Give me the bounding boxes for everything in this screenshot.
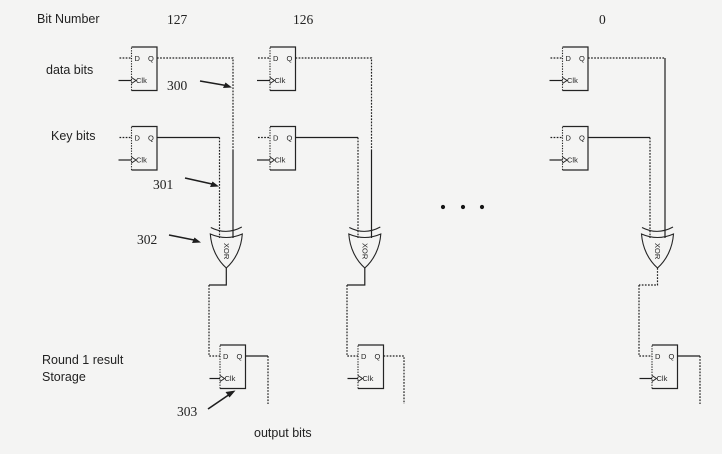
arrow 302 pointing to XOR gate <box>169 235 201 243</box>
flip-flop round 1 result bit 0 <box>652 345 678 389</box>
wire: Clk stub, result FF 0 <box>640 378 653 380</box>
svg-text:Storage: Storage <box>42 370 86 384</box>
wire: Clk stub, data FF 126 <box>257 80 270 82</box>
wire: data FF 0 Q to XOR input <box>588 57 665 59</box>
ellipsis dots between columns <box>441 205 445 209</box>
wire: D input stub, key FF 126 <box>258 137 270 139</box>
XOR gate bit 0 <box>642 227 674 268</box>
wire: Clk stub, data FF 0 <box>550 80 563 82</box>
svg-text:303: 303 <box>177 404 198 419</box>
wire: D input stub, data FF 126 <box>258 57 270 59</box>
wire: Clk stub, result FF 127 <box>210 378 221 380</box>
wire: D input stub, key FF 0 <box>551 137 563 139</box>
wire: data FF 126 Q to XOR input <box>296 58 372 150</box>
flip-flop data bit 0 <box>563 47 589 91</box>
wire: XOR 0 output to result FF D <box>639 268 658 285</box>
svg-text:301: 301 <box>153 177 173 192</box>
wire: Clk stub, key FF 126 <box>257 159 270 161</box>
wire: D input stub, key FF 127 <box>120 137 132 139</box>
wire: Clk stub, key FF 127 <box>119 159 132 161</box>
arrow 301 pointing to key wire <box>185 178 219 187</box>
flip-flop data bit 127 <box>132 47 158 91</box>
svg-text:output bits: output bits <box>254 426 312 440</box>
wire: key FF 0 Q to XOR input <box>588 137 650 139</box>
svg-text:126: 126 <box>293 12 314 27</box>
wire 301: key FF 127 Q to XOR input <box>157 137 220 139</box>
wire: Clk stub, result FF 126 <box>348 378 359 380</box>
wire: D input stub, data FF 0 <box>551 57 563 59</box>
svg-text:Bit Number: Bit Number <box>37 12 100 26</box>
wire: result FF 0 Q to output bit <box>678 355 701 357</box>
wire: result FF 126 Q to output bit <box>384 356 405 404</box>
svg-text:Key bits: Key bits <box>51 129 95 143</box>
flip-flop key bit 0 <box>563 127 589 171</box>
wire: Clk stub, key FF 0 <box>550 159 563 161</box>
svg-text:302: 302 <box>137 232 157 247</box>
arrow 300 pointing to data wire <box>200 81 232 88</box>
svg-text:127: 127 <box>167 12 188 27</box>
wire: D input stub, data FF 127 <box>120 57 132 59</box>
arrow 303 pointing to result flip-flop <box>208 391 236 410</box>
svg-text:300: 300 <box>167 78 188 93</box>
svg-text:data bits: data bits <box>46 63 93 77</box>
XOR gate bit 126 <box>349 227 381 268</box>
wire: result FF 127 Q to output bit <box>246 355 269 357</box>
wire: XOR 126 output to result FF D <box>347 268 365 285</box>
wire: Clk stub, data FF 127 <box>119 80 132 82</box>
svg-text:0: 0 <box>599 12 606 27</box>
flip-flop round 1 result bit 126 <box>358 345 384 389</box>
wire 300: data FF 127 Q to XOR input <box>157 58 233 150</box>
flip-flop round 1 result bit 127 <box>220 345 246 389</box>
wire: XOR 127 output to result FF D <box>209 268 226 285</box>
XOR gate bit 127 <box>210 227 242 268</box>
flip-flop data bit 126 <box>270 47 296 91</box>
wire: key FF 126 Q to XOR input <box>296 137 359 139</box>
flip-flop key bit 126 <box>270 127 296 171</box>
flip-flop key bit 127 <box>132 127 158 171</box>
svg-text:Round 1 result: Round 1 result <box>42 353 124 367</box>
